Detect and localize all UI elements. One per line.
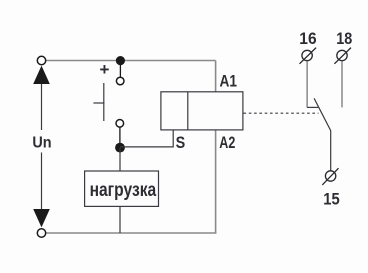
wire load to bottom rail [119,206,121,233]
svg-text:18: 18 [336,29,352,48]
node: switch terminal upper [116,77,124,85]
wire switch to junction [119,127,121,148]
wire A2 vertical [215,130,217,233]
contact 16 fixed hook [307,106,318,108]
wire bottom rail [45,232,216,234]
load box [85,171,159,206]
wire junction to switch terminal [119,61,121,78]
junction top (dot) [116,56,125,65]
wire top rail (gray) [45,61,216,234]
relay U1 divider [187,92,189,130]
junction lower (dot) [115,143,125,153]
terminal 18 (circle with slash) [334,48,351,64]
wire left rail lower [41,153,43,211]
svg-text:16: 16 [299,29,316,48]
wire A1 vertical [215,61,217,93]
wire left rail upper [41,84,43,130]
switch S1 actuator tick [93,102,104,104]
relay U1 body [161,92,243,130]
wire contact 16 lead [306,61,308,108]
wire contact 18 lead [341,61,343,108]
svg-text:A1: A1 [220,71,238,90]
node: bottom supply terminal [37,229,45,237]
contact lever (changeover) [314,98,331,170]
node: switch terminal lower [116,120,124,128]
terminal 15 (circle with slash) [322,168,338,185]
arrow up (polarity marker) [33,66,50,84]
svg-text:S: S [176,133,186,152]
arrow down (polarity marker) [33,209,50,227]
wire S branch [120,130,173,147]
dashed actuation link [244,112,319,114]
svg-text:A2: A2 [219,133,235,152]
svg-text:Un: Un [32,135,51,152]
svg-text:15: 15 [323,189,339,208]
svg-text:нагрузка: нагрузка [90,180,157,201]
switch S1 lever [103,83,105,121]
node: top supply terminal [37,56,45,64]
terminal 16 (circle with slash) [300,48,317,64]
wire junction to load [119,148,121,171]
svg-text:+: + [100,60,110,79]
